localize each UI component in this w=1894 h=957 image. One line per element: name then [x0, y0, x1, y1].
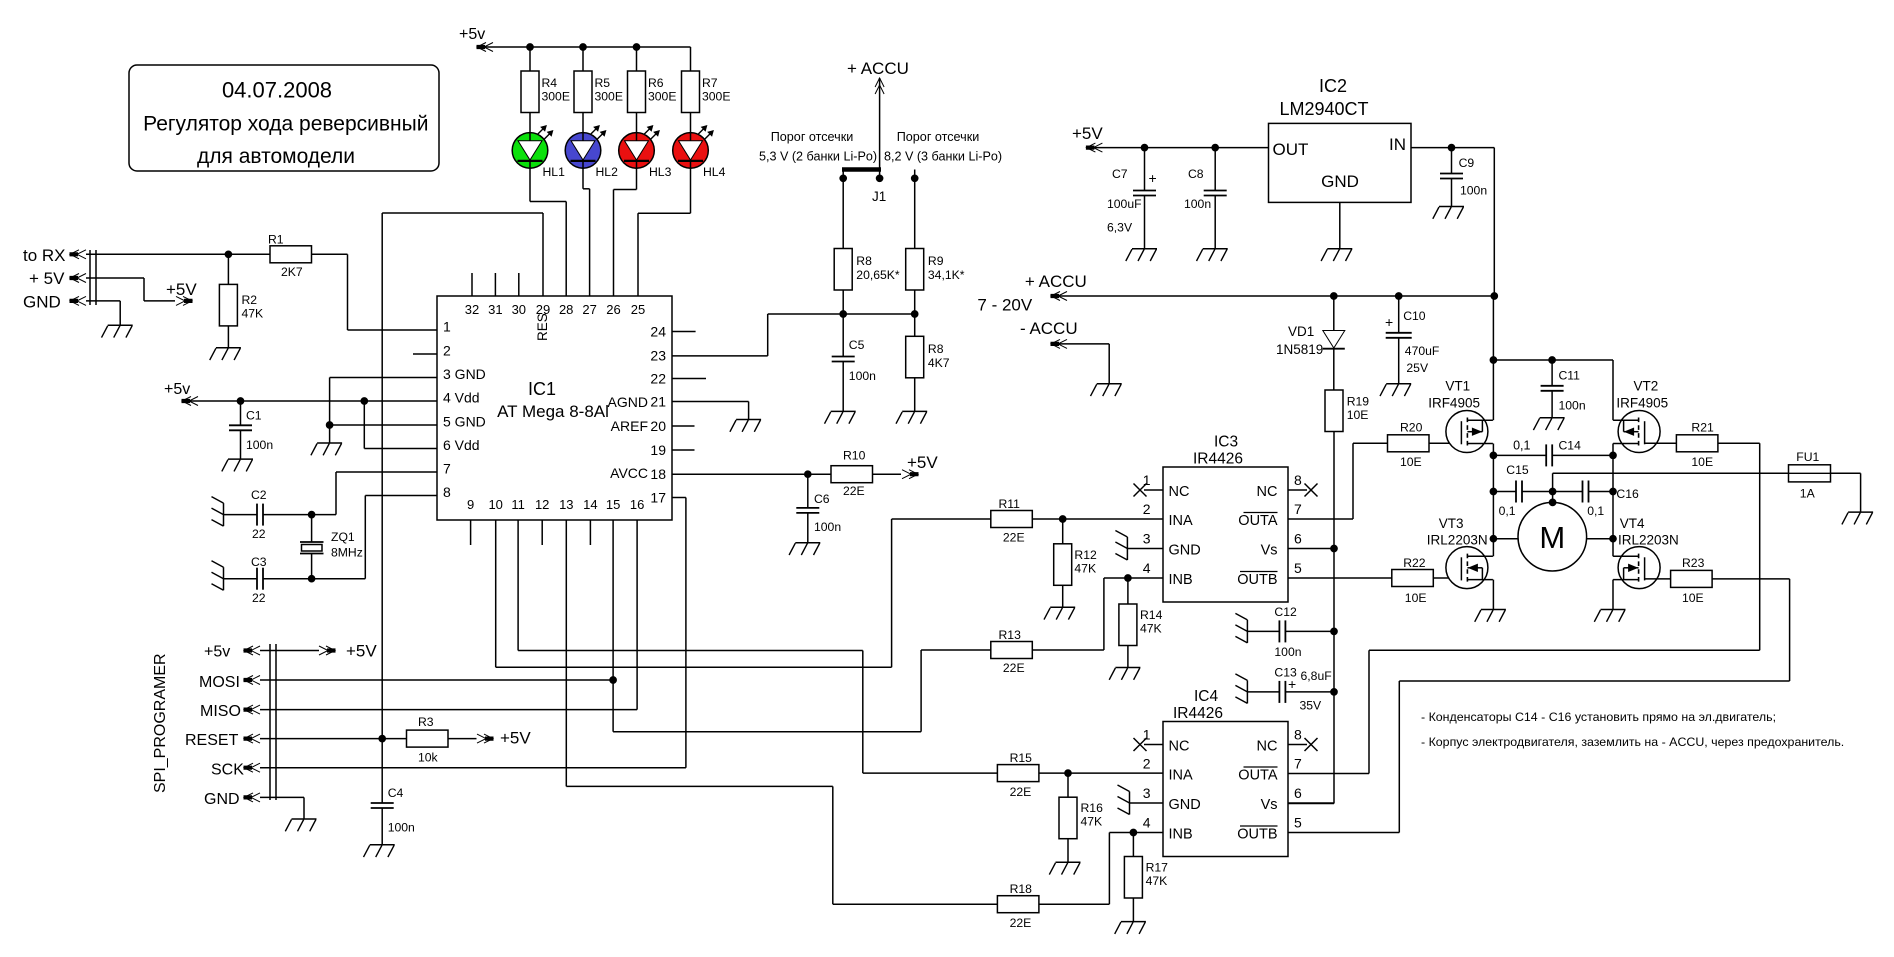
title box [129, 65, 439, 171]
svg-text:R6: R6 [648, 76, 664, 90]
svg-text:+5V: +5V [346, 642, 377, 661]
ground (IC4 GND pin) [1118, 785, 1164, 815]
ground (C11) [1533, 418, 1564, 430]
svg-text:8: 8 [443, 484, 451, 500]
connector to RX header [23, 246, 96, 312]
svg-text:04.07.2008: 04.07.2008 [222, 78, 332, 103]
svg-text:22: 22 [650, 371, 666, 387]
svg-text:INA: INA [1169, 513, 1194, 529]
IC1 pin 19 20 22 24 stubs [672, 332, 706, 451]
svg-text:R19: R19 [1347, 395, 1370, 409]
svg-text:+5V: +5V [166, 280, 197, 299]
svg-text:IC2: IC2 [1319, 76, 1347, 96]
svg-text:R3: R3 [418, 715, 434, 729]
capacitor C10 [1385, 296, 1439, 384]
note text line 2 [1421, 735, 1844, 749]
svg-text:+ ACCU: + ACCU [1025, 272, 1087, 291]
svg-text:MOSI: MOSI [199, 674, 240, 691]
ground (IC2) [1321, 249, 1352, 261]
svg-text:100uF: 100uF [1107, 197, 1142, 211]
ground (R17) [1115, 922, 1146, 934]
svg-text:6,3V: 6,3V [1107, 221, 1133, 235]
IC1 bottom pin labels [467, 497, 644, 512]
diode VD1 1N5819 [1276, 296, 1345, 390]
jumper J1 [840, 166, 918, 205]
fuse FU1 [1553, 450, 1861, 512]
resistor R11 [991, 497, 1163, 545]
svg-text:R2: R2 [242, 293, 258, 307]
wire +5v rail to IC1 pin4 [182, 398, 437, 404]
wire HL3 to IC1 pin26 [614, 168, 637, 296]
svg-text:R18: R18 [1010, 882, 1033, 896]
svg-text:3 GND: 3 GND [443, 366, 486, 382]
svg-text:C2: C2 [251, 488, 267, 502]
resistor R14 [1119, 578, 1163, 668]
ground (VT3) [1475, 610, 1506, 622]
svg-text:10: 10 [488, 497, 502, 512]
svg-text:C14: C14 [1559, 439, 1582, 453]
ground (C3) [212, 561, 224, 591]
svg-text:to RX: to RX [23, 246, 66, 265]
IC1 pin 9 12 14 stubs [471, 520, 591, 545]
note text line 1 [1421, 710, 1776, 724]
svg-text:R15: R15 [1010, 751, 1033, 765]
svg-text:32: 32 [465, 302, 479, 317]
resistor R16 [1059, 773, 1103, 862]
svg-text:GND: GND [1321, 172, 1359, 191]
IC1 right pin labels [608, 324, 667, 506]
svg-text:R1: R1 [268, 233, 284, 247]
svg-text:R12: R12 [1074, 548, 1097, 562]
svg-text:MISO: MISO [200, 703, 241, 720]
svg-text:C3: C3 [251, 555, 267, 569]
resistor R8 4K7 [906, 314, 950, 411]
wire IC1 pin21 AGND [672, 402, 749, 420]
svg-text:Порог отсечки: Порог отсечки [897, 130, 980, 144]
svg-text:100n: 100n [1184, 197, 1211, 211]
svg-text:Vs: Vs [1261, 543, 1278, 559]
svg-text:NC: NC [1257, 739, 1278, 755]
wire VT4 source to ground [1612, 539, 1614, 610]
wire MISO row to IC1 pin16 [260, 520, 637, 710]
transistor VT4 IRL2203N [1613, 516, 1679, 589]
svg-text:34,1K*: 34,1K* [928, 268, 965, 282]
wire IC1 pin5 GND [330, 424, 437, 426]
svg-text:5,3 V (2 банки Li-Po): 5,3 V (2 банки Li-Po) [759, 150, 877, 164]
svg-text:INB: INB [1169, 827, 1193, 843]
capacitor C1 [229, 401, 273, 459]
crystal ZQ1 [300, 515, 363, 579]
svg-text:VT4: VT4 [1620, 516, 1645, 531]
svg-text:OUTB: OUTB [1237, 827, 1277, 843]
svg-text:IRF4905: IRF4905 [1428, 396, 1480, 411]
svg-text:GND: GND [204, 791, 240, 808]
svg-text:3: 3 [1143, 785, 1151, 801]
resistor R20 [1388, 421, 1462, 469]
resistor R3 [407, 715, 477, 765]
svg-text:OUTA: OUTA [1238, 513, 1278, 529]
node + ACCU (J1) [847, 59, 909, 166]
svg-text:10E: 10E [1347, 408, 1369, 422]
transistor VT1 IRF4905 [1428, 379, 1493, 453]
svg-text:11: 11 [511, 497, 525, 512]
svg-text:25: 25 [631, 302, 645, 317]
svg-text:HL4: HL4 [703, 165, 726, 179]
svg-text:8,2 V (3 банки Li-Po): 8,2 V (3 банки Li-Po) [884, 150, 1002, 164]
capacitor C7 [1107, 148, 1157, 249]
svg-text:31: 31 [488, 302, 502, 317]
svg-text:+5V: +5V [1072, 124, 1103, 143]
svg-text:HL1: HL1 [543, 165, 566, 179]
resistor R1 [228, 233, 347, 280]
svg-text:1N5819: 1N5819 [1276, 342, 1323, 357]
wire R21 to IC4 OUTA [1288, 443, 1760, 773]
svg-text:35V: 35V [1300, 699, 1323, 713]
svg-text:22E: 22E [843, 484, 865, 498]
node +5V (R3) [477, 729, 531, 748]
svg-text:23: 23 [650, 348, 666, 364]
svg-text:C15: C15 [1506, 463, 1529, 477]
wire VT1 drain node [1490, 444, 1496, 542]
svg-text:R4: R4 [542, 76, 558, 90]
svg-text:+5v: +5v [459, 26, 485, 43]
svg-text:6: 6 [1294, 785, 1302, 801]
svg-text:R10: R10 [843, 449, 866, 463]
svg-text:IRL2203N: IRL2203N [1427, 533, 1488, 548]
svg-text:2K7: 2K7 [281, 265, 303, 279]
IC1 ATmega8 body [437, 296, 672, 520]
resistor R8 20,65K [834, 178, 900, 314]
svg-text:+: + [1149, 170, 1157, 186]
svg-text:SCK: SCK [211, 762, 244, 779]
svg-text:IRL2203N: IRL2203N [1618, 533, 1679, 548]
svg-text:C8: C8 [1188, 167, 1204, 181]
svg-text:14: 14 [583, 497, 597, 512]
wire R1 to IC1 pin1 [348, 254, 438, 330]
svg-text:R22: R22 [1403, 556, 1426, 570]
wire GND row [86, 301, 120, 325]
svg-text:22E: 22E [1010, 916, 1032, 930]
ground (SPI) [285, 819, 316, 831]
svg-text:17: 17 [650, 490, 666, 506]
svg-text:47K: 47K [1074, 562, 1096, 576]
ground (- ACCU) [1091, 384, 1122, 396]
svg-text:AVCC: AVCC [610, 465, 648, 481]
svg-text:27: 27 [582, 302, 596, 317]
svg-text:OUTB: OUTB [1237, 572, 1277, 588]
resistor R23 [1645, 556, 1790, 605]
svg-text:J1: J1 [872, 189, 886, 204]
capacitor C9 [1440, 148, 1487, 207]
svg-text:R23: R23 [1682, 556, 1705, 570]
ground (RX header) [102, 325, 133, 337]
capacitor C8 [1184, 148, 1227, 249]
svg-text:300E: 300E [542, 90, 570, 104]
ground (C5) [825, 411, 856, 423]
wire VT3 source to ground [1492, 539, 1494, 610]
wire IC1 pin11 to R15 [518, 520, 997, 773]
node + ACCU supply [977, 272, 1086, 315]
svg-text:6,8uF: 6,8uF [1301, 669, 1332, 683]
svg-text:HL2: HL2 [596, 165, 619, 179]
svg-text:OUT: OUT [1273, 140, 1309, 159]
svg-text:1A: 1A [1800, 487, 1816, 501]
ground (R16) [1049, 862, 1080, 874]
svg-text:+5V: +5V [500, 729, 531, 748]
ground (VT4) [1594, 610, 1625, 622]
svg-text:+ ACCU: + ACCU [847, 59, 909, 78]
wire IC2 IN [1411, 145, 1494, 297]
wire RES net (pin29 to RESET) [382, 213, 543, 739]
svg-text:IN: IN [1389, 135, 1406, 154]
svg-text:FU1: FU1 [1796, 450, 1819, 464]
svg-text:3: 3 [1143, 531, 1151, 547]
capacitor C13 [1247, 666, 1334, 713]
svg-text:0,1: 0,1 [1499, 504, 1516, 518]
svg-text:8: 8 [1294, 727, 1302, 743]
LED HL2 [565, 113, 618, 180]
svg-text:8MHz: 8MHz [331, 546, 363, 560]
svg-text:+5V: +5V [907, 453, 938, 472]
svg-text:28: 28 [559, 302, 573, 317]
wire to RX row [86, 251, 231, 257]
svg-text:C4: C4 [388, 786, 404, 800]
svg-text:24: 24 [650, 324, 666, 340]
capacitor C14 [1493, 439, 1613, 467]
svg-text:C5: C5 [849, 338, 865, 352]
ground (C8) [1197, 249, 1228, 261]
wire IC3 Vs [1288, 548, 1334, 550]
ground (R14) [1109, 668, 1140, 680]
node +5v rail [164, 381, 198, 406]
svg-text:13: 13 [559, 497, 573, 512]
svg-text:30: 30 [512, 302, 526, 317]
node MOSI [199, 674, 260, 691]
node +5v (SPI) [204, 642, 377, 661]
svg-text:R5: R5 [595, 76, 611, 90]
wire IC2 OUT rail [1086, 145, 1268, 151]
wire R23 to IC4 OUTB [1288, 579, 1790, 833]
svg-text:- Корпус электродвигателя, заз: - Корпус электродвигателя, заземлить на … [1421, 735, 1844, 749]
svg-text:INB: INB [1169, 572, 1193, 588]
svg-text:4K7: 4K7 [928, 356, 950, 370]
ground (R12) [1044, 607, 1075, 619]
svg-text:+5v: +5v [164, 381, 190, 398]
resistor R10 [831, 449, 901, 499]
ground (C12) [1235, 613, 1247, 643]
svg-text:10E: 10E [1682, 591, 1704, 605]
node GND (SPI) [204, 791, 260, 808]
driver IC3 IR4426 [1134, 434, 1318, 603]
svg-text:20,65K*: 20,65K* [856, 268, 900, 282]
svg-text:VT1: VT1 [1445, 379, 1470, 394]
svg-text:6: 6 [1294, 531, 1302, 547]
svg-text:5 GND: 5 GND [443, 414, 486, 430]
resistor R21 [1645, 421, 1760, 469]
ground (C9) [1433, 207, 1464, 219]
svg-text:300E: 300E [648, 90, 676, 104]
resistor R19 [1288, 390, 1369, 804]
ground (AGND) [730, 420, 761, 432]
label threshold 5,3V [759, 130, 877, 164]
resistor R4 [521, 47, 570, 113]
svg-text:HL3: HL3 [649, 165, 672, 179]
resistor R13 [991, 575, 1163, 675]
wire divider mid rail to IC1 pin23 [672, 311, 918, 356]
ground (C1) [222, 459, 253, 471]
svg-text:R17: R17 [1146, 861, 1169, 875]
wire IC2 GND pin [1339, 202, 1341, 248]
ground (FU1) [1842, 512, 1873, 524]
resistor R2 [219, 254, 263, 347]
resistor R12 [1054, 519, 1097, 607]
svg-text:100n: 100n [1460, 184, 1487, 198]
resistor R18 [997, 829, 1163, 930]
transistor VT2 IRF4905 [1613, 379, 1668, 453]
svg-text:IRF4905: IRF4905 [1616, 396, 1668, 411]
resistor R22 [1392, 556, 1462, 605]
wire IC3 OUTB to R22 [1288, 577, 1392, 579]
svg-text:M: M [1539, 520, 1565, 555]
svg-text:NC: NC [1169, 484, 1190, 500]
svg-text:+: + [1385, 314, 1393, 330]
svg-text:NC: NC [1257, 484, 1278, 500]
motor M [1493, 473, 1613, 571]
svg-text:300E: 300E [702, 90, 730, 104]
wire VT2 drain node [1610, 444, 1616, 542]
svg-text:300E: 300E [595, 90, 623, 104]
svg-text:AGND: AGND [608, 394, 648, 410]
svg-text:10E: 10E [1400, 455, 1422, 469]
svg-text:GND: GND [1169, 543, 1201, 559]
transistor VT3 IRL2203N [1427, 516, 1493, 589]
svg-text:VT3: VT3 [1439, 516, 1464, 531]
wire +ACCU to bridge top rail [1490, 296, 1613, 420]
svg-text:100n: 100n [1274, 645, 1301, 659]
svg-text:6 Vdd: 6 Vdd [443, 437, 480, 453]
resistor R6 [628, 47, 677, 113]
node +5V (AVCC) [902, 453, 938, 479]
svg-text:470uF: 470uF [1405, 344, 1440, 358]
ground (IC1 GND pins) [311, 443, 342, 455]
svg-text:C16: C16 [1616, 487, 1639, 501]
capacitor C15 [1493, 463, 1552, 518]
capacitor C11 [1541, 360, 1586, 418]
svg-text:47K: 47K [1146, 874, 1168, 888]
svg-text:Порог отсечки: Порог отсечки [771, 130, 854, 144]
resistor R5 [574, 47, 623, 113]
svg-text:22E: 22E [1003, 531, 1025, 545]
svg-text:7: 7 [443, 461, 451, 477]
svg-text:R8: R8 [856, 254, 872, 268]
svg-text:- Конденсаторы С14 - С16 устан: - Конденсаторы С14 - С16 установить прям… [1421, 710, 1776, 724]
wire SCK row to IC1 pin17 [260, 498, 686, 768]
svg-text:для автомодели: для автомодели [197, 145, 355, 168]
svg-text:R14: R14 [1140, 608, 1163, 622]
node SCK [211, 762, 260, 779]
wire MOSI row [260, 679, 613, 681]
capacitor C12 [1247, 605, 1334, 659]
node +5v LED rail [459, 26, 691, 52]
wire HL4 to IC1 pin25 [638, 168, 691, 296]
svg-text:12: 12 [535, 497, 549, 512]
svg-text:9: 9 [467, 497, 474, 512]
IC1 top pin labels [465, 302, 645, 341]
capacitor C2 [224, 488, 315, 541]
svg-text:4: 4 [1143, 560, 1151, 576]
svg-text:Регулятор хода реверсивный: Регулятор хода реверсивный [143, 113, 428, 136]
wire IC1 pin3 GND [327, 378, 438, 444]
svg-text:100n: 100n [1559, 399, 1586, 413]
svg-text:10E: 10E [1405, 591, 1427, 605]
svg-text:2: 2 [443, 343, 451, 359]
svg-text:C7: C7 [1112, 167, 1128, 181]
svg-text:IC1: IC1 [528, 379, 556, 399]
svg-text:R16: R16 [1081, 801, 1104, 815]
svg-text:OUTA: OUTA [1238, 768, 1278, 784]
capacitor C5 [832, 314, 876, 411]
svg-text:0,1: 0,1 [1587, 504, 1604, 518]
ground (C7) [1126, 249, 1157, 261]
svg-text:RESET: RESET [185, 732, 239, 749]
svg-text:R7: R7 [702, 76, 718, 90]
svg-text:C11: C11 [1559, 369, 1581, 383]
svg-text:22: 22 [252, 527, 266, 541]
svg-text:7: 7 [1294, 756, 1302, 772]
IC1 pin2 stub [413, 353, 437, 355]
svg-text:100n: 100n [246, 438, 273, 452]
connector SPI_PROGRAMER [152, 644, 276, 800]
capacitor C3 [224, 555, 315, 605]
ground (C4) [364, 845, 395, 857]
wire +5V row to arrow [86, 278, 175, 301]
svg-text:10k: 10k [418, 751, 439, 765]
ground (C10) [1380, 384, 1411, 396]
svg-text:- ACCU: - ACCU [1020, 319, 1078, 338]
LED HL3 [619, 113, 672, 180]
svg-text:+5v: +5v [204, 644, 230, 661]
svg-text:100n: 100n [849, 369, 876, 383]
wire IC1 pin13 to R18 [566, 520, 997, 904]
svg-text:15: 15 [606, 497, 620, 512]
svg-text:22: 22 [252, 591, 266, 605]
svg-text:C1: C1 [246, 409, 262, 423]
ground (R8 4K7) [896, 411, 927, 423]
node +5V (RX header) [166, 280, 197, 305]
capacitor C4 [371, 739, 415, 845]
LED HL4 [673, 113, 726, 180]
svg-text:+ 5V: + 5V [29, 269, 65, 288]
ground (C6) [789, 543, 820, 555]
svg-text:ZQ1: ZQ1 [331, 530, 355, 544]
svg-text:100n: 100n [388, 821, 415, 835]
wire HL2 to IC1 pin27 [583, 168, 590, 296]
svg-text:7 - 20V: 7 - 20V [977, 296, 1032, 315]
svg-text:7: 7 [1294, 501, 1302, 517]
svg-text:R21: R21 [1691, 421, 1714, 435]
resistor R9 34,1K [906, 178, 965, 314]
svg-text:R8: R8 [928, 342, 944, 356]
svg-text:AREF: AREF [611, 418, 648, 434]
capacitor C16 [1550, 481, 1639, 519]
resistor R7 [682, 47, 731, 113]
wire IC4 Vs [1288, 802, 1334, 804]
svg-text:VD1: VD1 [1288, 324, 1314, 339]
svg-text:INA: INA [1169, 768, 1194, 784]
node - ACCU [1020, 319, 1109, 384]
svg-text:20: 20 [650, 418, 666, 434]
svg-text:100n: 100n [814, 520, 841, 534]
